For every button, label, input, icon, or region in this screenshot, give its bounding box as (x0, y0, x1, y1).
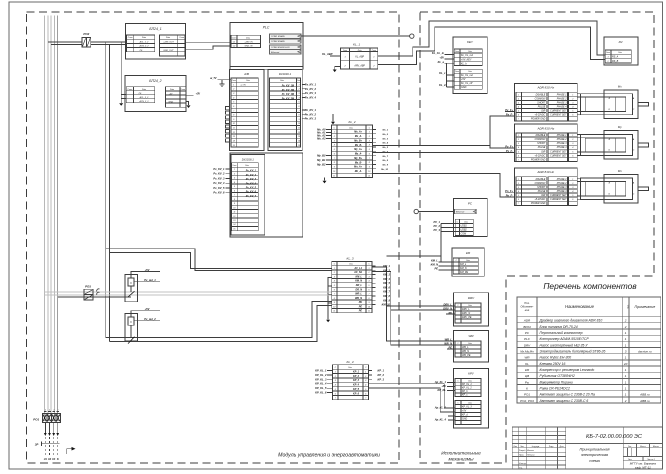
svg-text:11: 11 (233, 128, 235, 130)
svg-text:3: 3 (518, 187, 519, 189)
svg-text:4: 4 (334, 144, 335, 147)
labels KRU upper inputs (447, 382, 455, 384)
svg-text:Ap_KL_4: Ap_KL_4 (434, 418, 447, 422)
svg-text:Mx_9: Mx_9 (383, 165, 389, 167)
motor shaft Mn (638, 187, 648, 191)
svg-text:Px_KV_1M: Px_KV_1M (282, 85, 295, 88)
svg-text:3: 3 (518, 102, 519, 104)
svg-text:Px_out_1: Px_out_1 (144, 278, 156, 282)
svg-text:8: 8 (369, 162, 370, 164)
svg-text:KP_2: KP_2 (353, 375, 360, 378)
svg-text:Mx_4: Mx_4 (383, 142, 389, 145)
wire loop inner My (585, 138, 626, 152)
svg-text:6: 6 (572, 115, 573, 117)
wire branch lower to KL_3 A (106, 302, 332, 338)
svg-text:10: 10 (333, 171, 335, 173)
connector terminal circle PC (414, 209, 418, 213)
svg-text:Mx_A-: Mx_A- (355, 135, 362, 138)
svg-text:11: 11 (233, 212, 235, 214)
svg-text:Data: Data (468, 401, 472, 404)
svg-text:2: 2 (233, 173, 235, 175)
svg-text:Pn_KV_1: Pn_KV_1 (305, 108, 317, 112)
wire relay K2 +5V (131, 311, 160, 317)
svg-text:Px_KV_2: Px_KV_2 (246, 174, 257, 177)
wire loop outer Mx (581, 94, 633, 115)
BP24_2 input table (126, 87, 155, 103)
svg-text:2: 2 (334, 376, 336, 378)
title block doc number (566, 443, 663, 445)
svg-text:ACL_2_2: ACL_2_2 (139, 96, 150, 99)
svg-text:DRV: DRV (468, 296, 475, 300)
svg-text:KP_5: KP_5 (353, 388, 360, 391)
svg-text:+5V: +5V (145, 307, 150, 311)
svg-text:My_B1: My_B1 (317, 158, 326, 162)
svg-text:№ докум.: № докум. (532, 445, 540, 448)
svg-text:PHASE 1: PHASE 1 (557, 134, 567, 137)
svg-text:Px_KV_4: Px_KV_4 (305, 95, 317, 99)
svg-text:KP_2: KP_2 (378, 373, 385, 377)
svg-text:1: 1 (365, 371, 366, 373)
svg-text:KM_L: KM_L (431, 259, 438, 263)
wire dark branch from bus (58, 296, 131, 298)
svg-text:Px_KV_2: Px_KV_2 (305, 87, 317, 91)
relay K1 coil (128, 278, 134, 286)
svg-text:KL_KL_out: KL_KL_out (461, 74, 473, 77)
wire branch lower to KL_3 B (110, 305, 332, 341)
svg-text:SHORT: SHORT (537, 102, 546, 104)
wire relay K2 control (134, 320, 160, 322)
svg-text:My_B-: My_B- (355, 161, 362, 164)
svg-text:ACL_1_2: ACL_1_2 (139, 40, 150, 43)
svg-text:KEY: KEY (467, 40, 474, 44)
controller PLC (230, 22, 303, 66)
svg-text:ADR 810 Hx: ADR 810 Hx (536, 86, 554, 90)
svg-text:KM_2: KM_2 (383, 268, 390, 272)
svg-text:12: 12 (298, 132, 300, 134)
wire trunk branch DRV 1 (387, 305, 455, 307)
svg-text:4: 4 (518, 106, 519, 109)
svg-text:KP_KL_6: KP_KL_6 (315, 391, 327, 395)
svg-text:ai_TV: ai_TV (210, 77, 217, 80)
svg-text:10: 10 (298, 123, 300, 125)
svg-text:USB2: USB2 (461, 229, 468, 232)
svg-text:БП24_1: БП24_1 (149, 27, 161, 31)
svg-text:4: 4 (299, 96, 300, 99)
svg-text:1: 1 (572, 94, 573, 96)
title block right cells (623, 447, 662, 449)
svg-text:KP_3: KP_3 (378, 377, 385, 381)
svg-text:ADR 810 Hy: ADR 810 Hy (536, 126, 554, 130)
svg-text:My_B2: My_B2 (317, 163, 326, 167)
DI lower left stubs with labels (225, 168, 232, 170)
svg-text:WR_L: WR_L (355, 293, 362, 296)
svg-text:1: 1 (45, 409, 46, 411)
svg-text:6: 6 (233, 106, 234, 108)
svg-text:C1: C1 (233, 42, 236, 44)
motor shaft My (638, 143, 648, 147)
svg-text:Pd: Pd (619, 40, 623, 44)
svg-text:KP_d: KP_d (462, 414, 468, 416)
svg-text:Исполнительные: Исполнительные (441, 451, 481, 457)
svg-text:Персональный компьютер: Персональный компьютер (540, 331, 583, 335)
wire KL_1 ground stub (335, 67, 341, 70)
stepper driver ADR 810 Hn (514, 168, 577, 206)
svg-text:DRV_PE: DRV_PE (462, 316, 472, 319)
svg-text:Px_KV_2M: Px_KV_2M (282, 89, 295, 92)
svg-text:Px_KV_1: Px_KV_1 (213, 167, 225, 171)
svg-text:3: 3 (572, 143, 573, 145)
svg-text:+5V: +5V (461, 78, 466, 81)
svg-text:2: 2 (517, 139, 519, 141)
svg-text:3: 3 (233, 93, 234, 95)
stubs ADR to loops Mx (577, 93, 580, 95)
svg-text:Блок питания DR-75-24: Блок питания DR-75-24 (540, 325, 578, 329)
svg-text:Px_KV_3: Px_KV_3 (246, 178, 257, 181)
svg-text:8: 8 (334, 162, 335, 164)
svg-text:2: 2 (364, 376, 366, 378)
svg-text:Data: Data (245, 164, 249, 167)
svg-text:KM_8: KM_8 (383, 294, 390, 298)
module A/B analog inputs (229, 69, 264, 150)
svg-text:6: 6 (369, 153, 370, 155)
wire vertical pair left B (109, 45, 111, 342)
svg-text:15: 15 (298, 145, 300, 147)
svg-text:9: 9 (234, 203, 235, 205)
svg-text:KP_4: KP_4 (353, 384, 360, 387)
wire gray pair sensor A (45, 291, 332, 293)
wire KL_2 to ADR Hn W3 (373, 174, 515, 198)
svg-text:Data: Data (468, 379, 472, 382)
svg-text:9: 9 (299, 119, 300, 121)
svg-text:Mx_7: Mx_7 (383, 156, 389, 158)
svg-text:Принципиальная: Принципиальная (580, 448, 610, 452)
svg-text:10: 10 (333, 306, 335, 308)
svg-text:PC_2: PC_2 (434, 224, 441, 228)
svg-text:Px_KV_3: Px_KV_3 (213, 177, 225, 181)
Pd table (605, 50, 631, 63)
svg-text:Data: Data (280, 79, 284, 82)
PLC backplane bus (230, 67, 303, 70)
svg-text:POWER GND: POWER GND (531, 119, 546, 121)
svg-text:PHASE 3: PHASE 3 (557, 101, 567, 104)
module DI/1016.1 lower (231, 155, 265, 236)
svg-text:DI/1016.1: DI/1016.1 (242, 157, 255, 161)
control panel KRU (453, 369, 488, 429)
svg-text:5: 5 (518, 111, 519, 113)
svg-text:ADR 810 Hn: ADR 810 Hn (536, 170, 554, 174)
svg-text:WR: WR (469, 334, 475, 338)
svg-text:схема: схема (589, 459, 599, 463)
svg-text:1: 1 (369, 132, 370, 134)
svg-text:4: 4 (369, 144, 370, 147)
svg-text:My: My (618, 125, 622, 129)
svg-text:15: 15 (233, 145, 235, 147)
svg-text:электрическая: электрическая (581, 453, 608, 457)
svg-text:KM_N: KM_N (431, 263, 438, 267)
wire trunk branch DRV 2 (391, 309, 455, 311)
key switch unit KEY (453, 37, 487, 93)
svg-text:+5V: +5V (169, 93, 173, 95)
svg-text:Py_F+: Py_F+ (505, 144, 513, 148)
wire KL_2 to ADR Hy W2 (373, 152, 515, 154)
terminal hooks gray pair (97, 289, 100, 292)
svg-text:+5V: +5V (439, 56, 444, 60)
svg-text:KP_b: KP_b (462, 391, 468, 393)
wire BP24_2 +5V out (186, 94, 194, 96)
svg-text:3: 3 (365, 380, 366, 382)
wire loop inner Mn (585, 182, 626, 196)
svg-text:Лит.: Лит. (628, 446, 632, 448)
KL_4 left stub labels (327, 370, 333, 372)
svg-text:5: 5 (233, 102, 234, 104)
KL_2 left stub labels group 1 (326, 129, 332, 131)
svg-text:5: 5 (572, 195, 573, 197)
svg-text:13: 13 (233, 136, 235, 138)
svg-text:10: 10 (233, 123, 235, 125)
svg-text:PHASE 2: PHASE 2 (557, 97, 567, 100)
svg-text:Н.контр.: Н.контр. (519, 463, 527, 465)
svg-text:KP_c: KP_c (462, 395, 468, 397)
svg-text:PE: PE (359, 310, 363, 313)
svg-text:KL_ABP: KL_ABP (355, 56, 364, 59)
power supply BP24_2 (125, 75, 186, 111)
KRU upper table (455, 379, 481, 397)
svg-text:4: 4 (334, 280, 335, 283)
svg-text:Data: Data (348, 366, 352, 369)
svg-text:PE: PE (359, 301, 363, 304)
svg-text:Контроллер ADAM-5510E/TCP: Контроллер ADAM-5510E/TCP (540, 337, 590, 341)
svg-text:6: 6 (365, 393, 366, 395)
svg-text:KP_1: KP_1 (353, 370, 360, 373)
svg-text:4: 4 (233, 96, 234, 99)
ground BP24_2 output (187, 105, 191, 108)
svg-text:КМ: КМ (525, 368, 530, 372)
svg-text:6: 6 (369, 289, 370, 291)
wire bus to RO2 lower (51, 44, 82, 46)
svg-text:Px_KV_6: Px_KV_6 (213, 191, 225, 195)
svg-text:ЗР: ЗР (35, 442, 39, 446)
svg-text:Data: Data (468, 50, 472, 53)
svg-text:PHASE 2: PHASE 2 (557, 182, 567, 185)
svg-text:РО3: РО3 (85, 285, 91, 289)
svg-text:5: 5 (365, 389, 366, 391)
dashed boundary module left (Модуль управления) (27, 12, 400, 463)
svg-text:2: 2 (517, 183, 519, 185)
PLC power table (231, 35, 260, 47)
svg-text:WR_L: WR_L (462, 346, 469, 349)
svg-text:1: 1 (49, 409, 50, 411)
pump DRV (453, 293, 488, 326)
svg-text:Data: Data (358, 49, 362, 52)
svg-text:1: 1 (53, 409, 54, 411)
connector terminal circle COM1 (410, 34, 414, 38)
DI upper right stub labels group 2 (302, 109, 305, 111)
svg-text:1: 1 (373, 57, 374, 59)
KM table (453, 258, 478, 274)
ground BP24_2 input (119, 103, 123, 106)
svg-text:Px_KV_1: Px_KV_1 (246, 170, 257, 173)
svg-text:Масшт.: Масшт. (653, 446, 660, 448)
svg-text:KL_c: KL_c (439, 71, 446, 75)
svg-text:Рама CR-PE24DC2: Рама CR-PE24DC2 (540, 386, 571, 390)
svg-text:CURRENT SET: CURRENT SET (550, 151, 567, 153)
svg-text:Поз.: Поз. (524, 301, 530, 305)
svg-text:9: 9 (369, 167, 370, 169)
svg-text:Наименование: Наименование (565, 304, 595, 309)
svg-text:ACN_2_2: ACN_2_2 (138, 45, 149, 48)
svg-text:8: 8 (369, 298, 370, 300)
svg-text:DIR: DIR (541, 195, 545, 197)
svg-text:2: 2 (571, 98, 573, 100)
svg-text:+5V: +5V (145, 268, 150, 272)
svg-text:Conn: Conn (297, 80, 301, 82)
svg-text:KM_5: KM_5 (383, 281, 390, 285)
svg-text:Обозначе-: Обозначе- (521, 305, 534, 309)
svg-text:11: 11 (298, 128, 300, 130)
svg-text:1: 1 (234, 169, 235, 171)
wire vertical pair left A (105, 42, 107, 338)
svg-text:Примечание: Примечание (635, 305, 656, 309)
svg-text:CURRENT SET: CURRENT SET (550, 155, 567, 157)
svg-text:DI/1016.1: DI/1016.1 (279, 72, 292, 76)
svg-text:Модуль управления и энергоавто: Модуль управления и энергоавтоматики (278, 453, 380, 459)
svg-text:AC_L1: AC_L1 (353, 267, 362, 270)
svg-text:PHASE 2: PHASE 2 (557, 138, 567, 141)
svg-text:13: 13 (233, 220, 235, 222)
svg-text:Mn: Mn (618, 169, 622, 173)
svg-text:АВВ.ru: АВВ.ru (639, 399, 650, 403)
ground below KL_3 (326, 320, 330, 323)
wire KL_1 to Pd run 1 (378, 21, 606, 56)
svg-text:KM_1: KM_1 (383, 264, 390, 268)
svg-text:9: 9 (334, 167, 335, 169)
svg-text:KP_KL_2: KP_KL_2 (315, 373, 327, 377)
svg-text:My_B+: My_B+ (354, 157, 362, 160)
wire BP24_1 to PLC +24V (186, 41, 232, 43)
svg-text:РО2: РО2 (83, 32, 89, 36)
svg-text:Дата: Дата (560, 446, 564, 448)
svg-text:Автомат защиты С 230В-2 20 Па: Автомат защиты С 230В-2 20 Па (539, 393, 596, 397)
relay K1 contact (130, 286, 132, 292)
svg-text:11: 11 (368, 175, 370, 177)
wires KM inputs (440, 258, 442, 262)
svg-text:+24V_OUT: +24V_OUT (163, 40, 174, 43)
svg-text:4: 4 (369, 280, 370, 283)
wire feed BP24_2 (120, 42, 122, 103)
svg-text:Px_KV_7: Px_KV_7 (246, 195, 257, 198)
svg-text:WR_N: WR_N (444, 342, 452, 346)
svg-text:8: 8 (233, 115, 234, 117)
svg-text:Conn: Conn (455, 71, 459, 73)
stubs ADR to loops Mn (577, 177, 580, 179)
svg-text:2: 2 (624, 399, 627, 403)
svg-text:2: 2 (333, 272, 335, 274)
svg-text:2: 2 (368, 136, 370, 138)
pump WR (453, 331, 488, 362)
svg-text:Ethernet: Ethernet (271, 51, 280, 54)
svg-text:COMMON: COMMON (535, 183, 546, 185)
relay K2 body (125, 314, 138, 341)
svg-text:2: 2 (624, 319, 627, 323)
svg-text:Mx,My,Mn: Mx,My,Mn (520, 349, 534, 353)
svg-text:PHASE 4: PHASE 4 (557, 190, 567, 193)
svg-text:КБ-7-02.00.00.000 ЭС: КБ-7-02.00.00.000 ЭС (586, 434, 643, 440)
svg-text:WR_PE: WR_PE (462, 354, 471, 357)
svg-text:ADR: ADR (523, 319, 531, 323)
svg-text:Px_KV_3: Px_KV_3 (305, 91, 317, 95)
svg-text:Mn_A+: Mn_A+ (354, 166, 363, 169)
svg-text:KM_6: KM_6 (383, 285, 390, 289)
svg-text:РО1: РО1 (33, 417, 39, 421)
wire KL_ABP stub (330, 55, 341, 57)
svg-text:5: 5 (369, 285, 370, 287)
svg-text:5: 5 (334, 285, 335, 287)
svg-text:Масса: Масса (640, 446, 647, 448)
wire bus to RO2 upper (48, 41, 82, 43)
svg-text:KM_L: KM_L (355, 275, 362, 278)
svg-text:Mx_B+: Mx_B+ (354, 139, 362, 142)
sensor Pd (604, 37, 638, 65)
svg-text:Pn_KV_3: Pn_KV_3 (305, 117, 317, 121)
svg-text:KL_1: KL_1 (353, 42, 360, 46)
svg-text:KP_KL_5: KP_KL_5 (315, 386, 327, 390)
svg-text:5: 5 (369, 149, 370, 151)
svg-text:WR_L: WR_L (445, 337, 453, 341)
svg-text:Mx_A+: Mx_A+ (354, 131, 362, 134)
svg-text:PE: PE (449, 346, 453, 350)
svg-text:5: 5 (299, 102, 300, 104)
svg-text:PHASE 3: PHASE 3 (557, 186, 567, 189)
svg-text:My_A-: My_A- (355, 153, 362, 156)
svg-text:KL_2: KL_2 (348, 120, 355, 124)
svg-text:4: 4 (518, 190, 519, 193)
svg-text:11: 11 (333, 175, 335, 177)
wire trunk branch KM 1 (387, 255, 441, 257)
svg-text:механизмы: механизмы (448, 458, 474, 463)
svg-text:GND: GND (461, 86, 467, 89)
svg-text:1: 1 (518, 94, 519, 96)
svg-text:KL_4: KL_4 (346, 360, 353, 364)
svg-text:Data: Data (618, 51, 622, 54)
svg-text:KL_b: KL_b (461, 62, 467, 65)
svg-text:DIR: DIR (541, 111, 545, 113)
wires KEY lower inputs (446, 63, 448, 87)
svg-text:Подп.: Подп. (549, 446, 554, 448)
svg-text:Mn_A-: Mn_A- (355, 170, 363, 173)
svg-text:3: 3 (518, 143, 519, 145)
svg-text:My_B0: My_B0 (317, 154, 326, 158)
PC ethernet port (455, 209, 477, 214)
svg-text:6: 6 (335, 393, 336, 395)
KL_2 left stub labels group 2 (326, 155, 332, 157)
svg-text:9: 9 (233, 119, 234, 121)
svg-text:Лист: Лист (628, 459, 632, 461)
wire PC ethernet (418, 211, 454, 213)
svg-text:Mx_A3: Mx_A3 (317, 137, 326, 141)
svg-text:4: 4 (572, 106, 573, 109)
svg-text:KM_4: KM_4 (383, 277, 390, 281)
svg-text:Mx_10: Mx_10 (381, 169, 388, 171)
svg-text:Data: Data (468, 304, 472, 307)
svg-text:KM_7: KM_7 (383, 290, 390, 294)
wire KL_4 to KRU 1 (369, 384, 455, 408)
svg-text:Кол.: Кол. (628, 304, 630, 309)
svg-text:2: 2 (232, 89, 234, 91)
svg-text:1: 1 (369, 268, 370, 270)
svg-text:Mx_3: Mx_3 (383, 138, 389, 140)
svg-text:2: 2 (298, 89, 300, 91)
svg-text:ACN_2_2: ACN_2_2 (138, 100, 149, 103)
